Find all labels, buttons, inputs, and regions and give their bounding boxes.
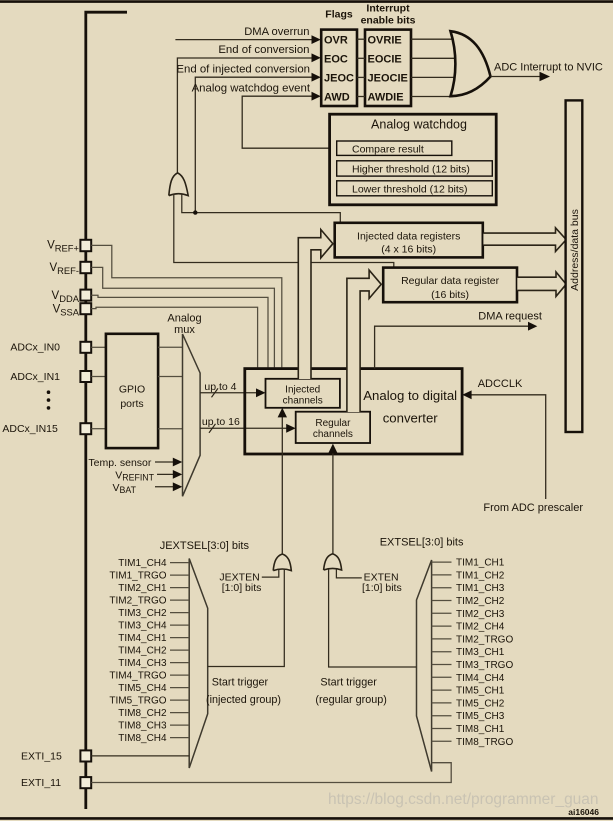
svg-text:ADCx_IN0: ADCx_IN0 [10, 342, 60, 354]
svg-text:TIM8_TRGO: TIM8_TRGO [456, 737, 513, 748]
wire: EXTI_11 to regular trigger mux [91, 763, 451, 783]
wire: VREFINT input [115, 469, 182, 482]
svg-text:OVRIE: OVRIE [368, 34, 402, 46]
svg-text:(16 bits): (16 bits) [431, 289, 469, 301]
svg-text:TIM1_CH1: TIM1_CH1 [456, 558, 505, 569]
wire: G1 right input from injected data registers [182, 194, 340, 223]
wire: End of conversion (from EOC or-gate output) [177, 44, 320, 173]
svg-text:Higher threshold (12 bits): Higher threshold (12 bits) [352, 164, 470, 176]
svg-text:TIM3_CH2: TIM3_CH2 [118, 608, 167, 619]
bottom border frame line [0, 817, 613, 820]
svg-text:TIM8_CH3: TIM8_CH3 [118, 721, 167, 732]
box: Address/data bus [566, 100, 583, 432]
injected trigger inputs: TIM labels and stubs [109, 558, 167, 744]
svg-text:converter: converter [383, 411, 439, 426]
svg-text:Compare result: Compare result [352, 143, 424, 155]
wire: Temp. sensor input [88, 457, 182, 469]
svg-text:mux: mux [174, 324, 195, 336]
wire: VREF+ to ADC [91, 245, 282, 367]
svg-text:[1:0] bits: [1:0] bits [222, 582, 262, 594]
pin square VREF- [49, 262, 91, 276]
wire: injected mux output to G2 [208, 570, 285, 667]
pin square ADCx_IN1 [10, 371, 106, 383]
top border frame line [0, 0, 613, 3]
pin square EXTI_15 [21, 750, 91, 762]
svg-text:TIM2_TRGO: TIM2_TRGO [456, 634, 513, 645]
svg-text:EOCIE: EOCIE [368, 54, 402, 66]
wire: up to 16 (mux to regular channels) [200, 416, 296, 433]
box: Regular channels [296, 412, 370, 443]
box: Injected data registers (4 x 16 bits) [335, 223, 483, 258]
label: JEXTSEL[3:0] bits [160, 540, 250, 552]
label: Start trigger (injected group) [206, 677, 281, 706]
node: junction of JEOC line with injected register wire [193, 210, 197, 214]
watermark [328, 791, 599, 808]
wire: regular mux output to G3 [329, 569, 417, 667]
label: Start trigger (regular group) [315, 677, 386, 706]
svg-text:[1:0] bits: [1:0] bits [362, 582, 402, 594]
svg-text:channels: channels [283, 395, 323, 406]
EOC or-gate G1 (combines injected/regular conversion done) [169, 173, 188, 196]
svg-text:(4 x 16 bits): (4 x 16 bits) [381, 243, 436, 255]
svg-text:GPIO: GPIO [119, 383, 145, 395]
svg-text:https://blog.csdn.net/programm: https://blog.csdn.net/programmer_guan [328, 791, 599, 808]
svg-text:Start trigger: Start trigger [320, 677, 377, 689]
svg-text:Lower threshold (12 bits): Lower threshold (12 bits) [352, 183, 468, 195]
wire: G1 left input from regular data register [174, 194, 394, 268]
svg-text:Analog: Analog [167, 312, 201, 324]
wire: VREF- to ADC [91, 267, 274, 367]
svg-text:Flags: Flags [325, 9, 353, 21]
svg-text:TIM1_CH4: TIM1_CH4 [118, 558, 167, 569]
box: Injected channels [266, 379, 340, 408]
box: Lower threshold (12 bits) [337, 181, 493, 196]
svg-text:EXTSEL[3:0] bits: EXTSEL[3:0] bits [380, 537, 464, 549]
svg-text:enable bits: enable bits [361, 15, 416, 27]
wire: VBAT input [113, 482, 183, 495]
wire: VSSA to ADC [91, 307, 257, 367]
OR gate U1 (interrupt OR) [451, 31, 491, 96]
svg-text:up to 16: up to 16 [202, 416, 240, 428]
svg-text:TIM2_TRGO: TIM2_TRGO [109, 596, 166, 607]
wire: EXTEN control input [336, 569, 401, 594]
ellipsis dots between ADCx_IN1 and ADCx_IN15 [47, 390, 51, 409]
wire: JEXTEN control input [219, 570, 278, 594]
box: Analog watchdog [330, 114, 497, 205]
svg-text:TIM5_CH3: TIM5_CH3 [456, 711, 505, 722]
svg-text:EXTI_11: EXTI_11 [21, 777, 61, 789]
svg-text:Analog watchdog: Analog watchdog [371, 118, 467, 132]
wire stubs: enable bits to OR gate [411, 39, 456, 96]
box: Interrupt enable bits [361, 2, 416, 106]
svg-text:TIM5_CH2: TIM5_CH2 [456, 698, 505, 709]
pin square ADCx_IN0 [10, 342, 106, 354]
svg-text:JEXTSEL[3:0] bits: JEXTSEL[3:0] bits [160, 540, 250, 552]
pin square VSSA [53, 303, 92, 317]
hollow bent arrow: regular channels to regular data register [347, 270, 381, 412]
box: ADC (Analog to digital converter) [245, 369, 462, 454]
injected trigger mux trapezoid [189, 559, 208, 769]
svg-text:VREF+: VREF+ [47, 240, 79, 254]
svg-text:AWD: AWD [324, 92, 350, 104]
label: ai16046 [568, 807, 599, 817]
hollow arrow: regular data register to address bus [517, 272, 566, 296]
svg-text:End of conversion: End of conversion [218, 44, 309, 56]
wire: DMA request [375, 311, 542, 369]
pin square VDDA [52, 290, 92, 304]
pin square EXTI_11 [21, 777, 91, 789]
analog mux trapezoid [167, 312, 201, 496]
svg-text:From ADC prescaler: From ADC prescaler [483, 502, 583, 514]
svg-text:TIM1_CH2: TIM1_CH2 [456, 570, 505, 581]
svg-text:channels: channels [313, 429, 353, 440]
svg-text:ai16046: ai16046 [568, 807, 599, 817]
svg-text:OVR: OVR [324, 34, 348, 46]
svg-text:TIM8_CH2: TIM8_CH2 [118, 708, 167, 719]
svg-text:up to 4: up to 4 [204, 381, 236, 393]
wire: DMA overrun [175, 26, 320, 44]
svg-text:JEOC: JEOC [324, 73, 354, 85]
pin square VREF+ [47, 240, 91, 254]
svg-text:(regular group): (regular group) [315, 694, 386, 706]
svg-text:Temp. sensor: Temp. sensor [88, 457, 152, 469]
svg-text:Regular data register: Regular data register [401, 275, 500, 287]
wire: G3 output to regular channels [328, 444, 337, 555]
gate G2: JEXTEN and-gate [273, 554, 291, 571]
regular trigger inputs: TIM labels and stubs [456, 558, 513, 748]
svg-text:TIM4_TRGO: TIM4_TRGO [109, 671, 166, 682]
svg-text:Analog watchdog event: Analog watchdog event [192, 82, 311, 94]
svg-text:End of injected conversion: End of injected conversion [176, 63, 310, 75]
svg-text:TIM2_CH4: TIM2_CH4 [456, 622, 505, 633]
wire: VDDA to ADC [91, 295, 268, 367]
svg-text:Analog to digital: Analog to digital [363, 388, 457, 403]
box: Compare result [337, 141, 452, 155]
box: Higher threshold (12 bits) [337, 161, 493, 176]
wire: ADCCLK (from ADC prescaler) [462, 378, 583, 514]
box: GPIO ports [106, 334, 158, 448]
wire stubs: flags to enable bits [357, 39, 365, 96]
label: EXTSEL[3:0] bits [380, 537, 464, 549]
wire: EXTI_15 to injected trigger mux [91, 755, 189, 757]
svg-text:ADCCLK: ADCCLK [478, 378, 523, 390]
svg-text:VSSA: VSSA [53, 304, 80, 318]
svg-text:VDDA: VDDA [52, 290, 80, 304]
svg-text:TIM1_CH3: TIM1_CH3 [456, 583, 505, 594]
svg-text:EOC: EOC [324, 54, 348, 66]
svg-text:TIM2_CH1: TIM2_CH1 [118, 583, 167, 594]
hollow bent arrow: injected channels to injected data registers [298, 230, 333, 380]
svg-text:TIM4_CH4: TIM4_CH4 [456, 673, 505, 684]
svg-text:TIM3_CH1: TIM3_CH1 [456, 647, 505, 658]
regular trigger mux trapezoid [417, 560, 432, 772]
svg-text:Start trigger: Start trigger [212, 677, 269, 689]
svg-text:Interrupt: Interrupt [366, 2, 410, 14]
svg-text:Address/data bus: Address/data bus [569, 209, 581, 291]
svg-text:TIM2_CH2: TIM2_CH2 [456, 596, 505, 607]
svg-text:ADCx_IN1: ADCx_IN1 [10, 371, 60, 383]
svg-text:JEOCIE: JEOCIE [368, 73, 408, 85]
svg-text:TIM2_CH3: TIM2_CH3 [456, 609, 505, 620]
wires: GPIO to analog mux [158, 347, 182, 428]
wire: Analog watchdog event (from compare result to AWD flag) [192, 82, 337, 148]
box: Flags [321, 9, 357, 106]
svg-text:Injected: Injected [285, 385, 320, 396]
hollow arrow: injected data registers to address bus [483, 228, 566, 252]
svg-text:TIM3_CH4: TIM3_CH4 [118, 621, 167, 632]
svg-text:EXTI_15: EXTI_15 [21, 751, 62, 763]
left bus line (chip boundary) [86, 12, 127, 809]
wire: up to 4 (mux to injected channels) [200, 381, 265, 397]
svg-text:TIM4_CH2: TIM4_CH2 [118, 646, 167, 657]
svg-text:TIM1_TRGO: TIM1_TRGO [109, 571, 166, 582]
svg-text:AWDIE: AWDIE [368, 92, 404, 104]
wire: ADC Interrupt to NVIC [491, 61, 603, 81]
svg-text:Regular: Regular [315, 418, 351, 429]
svg-text:TIM3_TRGO: TIM3_TRGO [456, 660, 513, 671]
svg-text:(injected group): (injected group) [206, 694, 281, 706]
svg-text:TIM8_CH1: TIM8_CH1 [456, 724, 505, 735]
svg-text:DMA overrun: DMA overrun [244, 26, 309, 38]
wire: G2 output to injected channels [278, 408, 287, 555]
svg-text:ADC Interrupt to NVIC: ADC Interrupt to NVIC [494, 61, 603, 73]
svg-text:ports: ports [120, 398, 143, 410]
svg-text:TIM5_CH4: TIM5_CH4 [118, 683, 167, 694]
svg-text:Injected data registers: Injected data registers [357, 230, 460, 242]
box: Regular data register (16 bits) [383, 268, 517, 303]
svg-text:TIM5_TRGO: TIM5_TRGO [109, 696, 166, 707]
svg-text:TIM8_CH4: TIM8_CH4 [118, 733, 167, 744]
svg-text:TIM5_CH1: TIM5_CH1 [456, 686, 505, 697]
gate G3: EXTEN and-gate [324, 554, 342, 570]
wire: End of injected conversion [176, 63, 320, 212]
svg-text:VREF-: VREF- [49, 262, 79, 276]
svg-text:TIM4_CH1: TIM4_CH1 [118, 633, 167, 644]
svg-text:ADCx_IN15: ADCx_IN15 [2, 423, 58, 435]
svg-text:TIM4_CH3: TIM4_CH3 [118, 658, 167, 669]
pin square ADCx_IN15 [2, 423, 106, 435]
svg-text:DMA request: DMA request [478, 311, 542, 323]
